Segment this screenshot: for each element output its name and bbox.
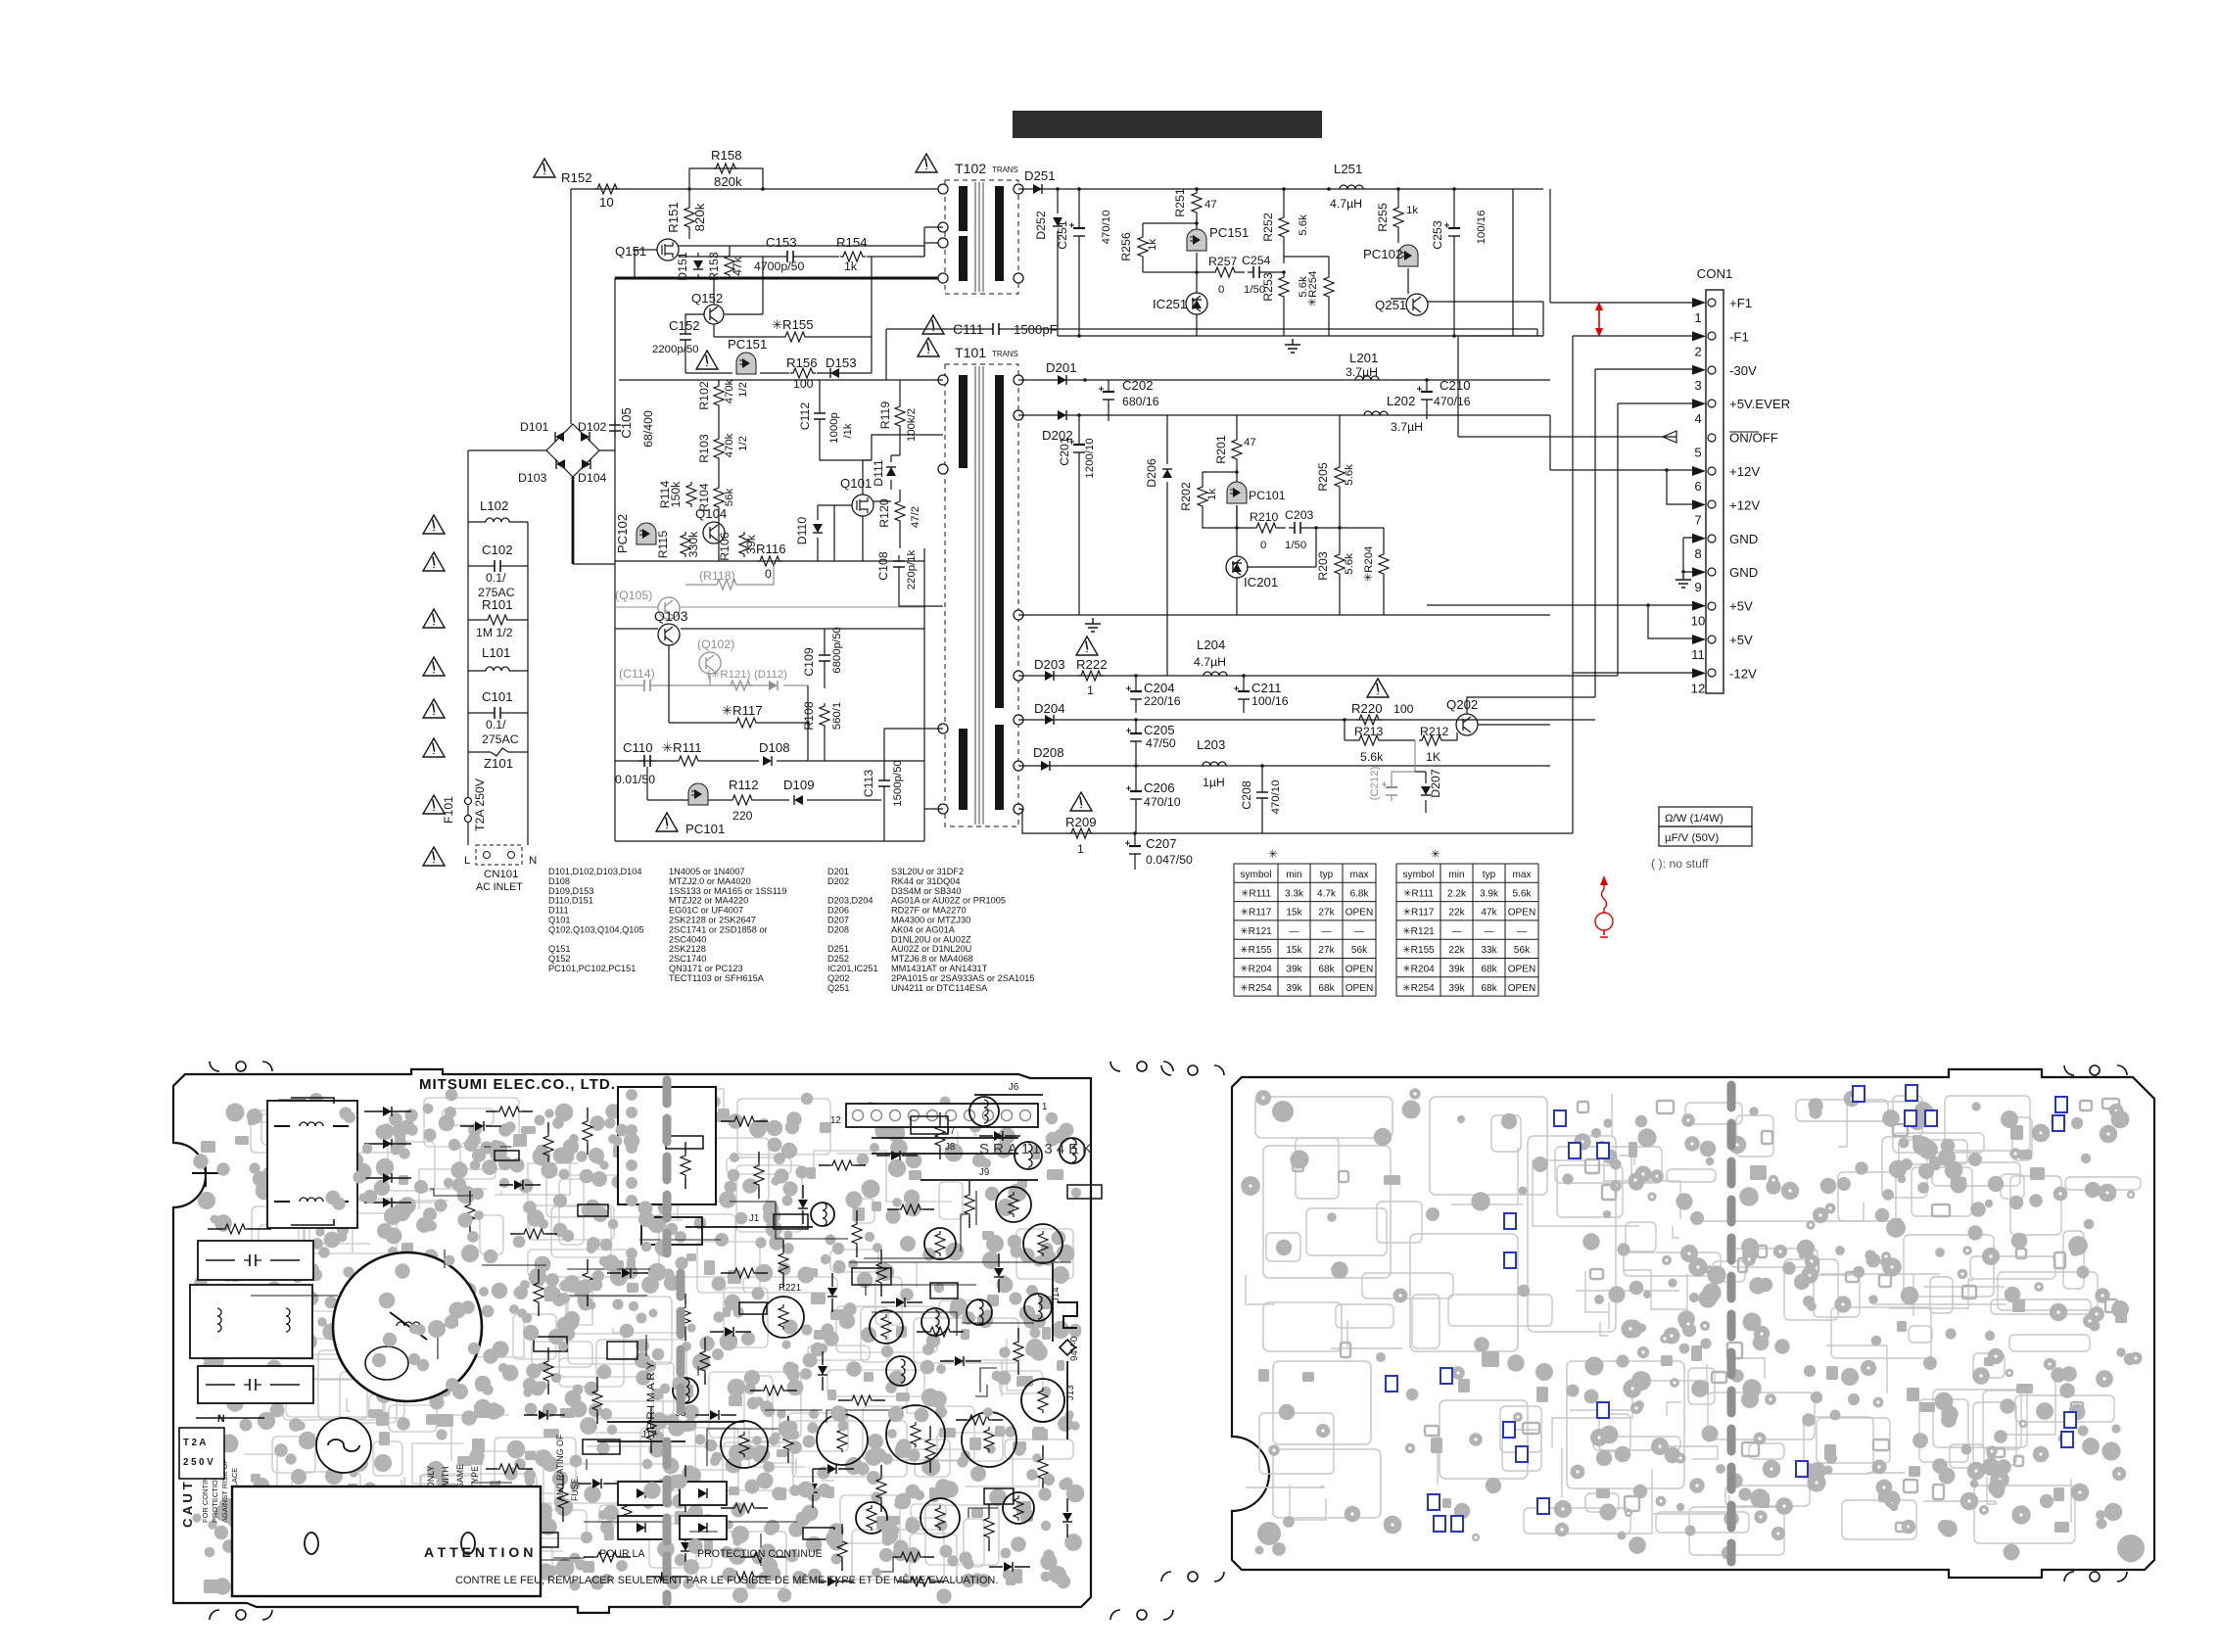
svg-text:220/16: 220/16 bbox=[1144, 694, 1181, 708]
diode D208 bbox=[1041, 761, 1050, 771]
svg-text:D153: D153 bbox=[826, 355, 857, 370]
svg-text:0.01/50: 0.01/50 bbox=[615, 773, 655, 786]
inductor L204 bbox=[1204, 672, 1227, 676]
svg-text:47: 47 bbox=[1244, 437, 1256, 448]
warning triangle bbox=[1070, 792, 1092, 811]
svg-text:C110: C110 bbox=[623, 740, 653, 755]
resistor R155* bbox=[782, 332, 808, 342]
svg-text:D3S4M or SB340: D3S4M or SB340 bbox=[891, 886, 962, 896]
svg-text:C208: C208 bbox=[1240, 780, 1253, 810]
capacitor C108 bbox=[898, 555, 900, 573]
warning triangle bbox=[918, 338, 939, 356]
PCB black links bbox=[707, 1429, 787, 1466]
resistor R151 bbox=[685, 205, 694, 230]
svg-text:MTZJ6.8 or MA4068: MTZJ6.8 or MA4068 bbox=[891, 954, 973, 964]
svg-text:12: 12 bbox=[1691, 681, 1706, 695]
svg-text:1/50: 1/50 bbox=[1285, 540, 1306, 551]
svg-text:D108: D108 bbox=[548, 876, 570, 886]
svg-text:D108: D108 bbox=[759, 740, 790, 755]
svg-text:(C212): (C212) bbox=[1369, 766, 1381, 800]
svg-text:(C114): (C114) bbox=[619, 667, 655, 681]
svg-text:C253: C253 bbox=[1431, 220, 1444, 250]
inductor L203 bbox=[1203, 762, 1226, 766]
svg-text:47/2: 47/2 bbox=[910, 506, 921, 528]
svg-text:D101,D102,D103,D104: D101,D102,D103,D104 bbox=[548, 867, 642, 876]
svg-text:47k: 47k bbox=[731, 256, 744, 276]
PCB component side board outline bbox=[173, 1069, 1091, 1613]
svg-text:R115: R115 bbox=[656, 531, 670, 559]
diode D110 bbox=[813, 524, 823, 533]
inductor L251 bbox=[1340, 185, 1363, 189]
svg-text:R222: R222 bbox=[1076, 657, 1108, 672]
svg-text:R156: R156 bbox=[786, 355, 818, 370]
svg-text:0.1/: 0.1/ bbox=[486, 571, 506, 585]
wire sec rail2 bbox=[1018, 414, 1550, 416]
resistor R158 bbox=[713, 164, 738, 173]
capacitor C153 bbox=[781, 256, 799, 258]
svg-text:2SC1741 or 2SD1858 or: 2SC1741 or 2SD1858 or bbox=[669, 924, 768, 934]
varistor Z101 bbox=[491, 748, 508, 756]
diode D153 bbox=[830, 368, 839, 378]
wire sec bottom rail bbox=[1018, 809, 1573, 833]
diode D204 bbox=[1045, 715, 1054, 725]
svg-text:R120: R120 bbox=[877, 498, 891, 528]
fuse circle bbox=[316, 1418, 371, 1473]
diode D108 bbox=[763, 756, 772, 766]
capacitor C205 bbox=[1135, 729, 1137, 747]
resistor R121 optional bbox=[728, 681, 753, 690]
svg-text:1M 1/2: 1M 1/2 bbox=[476, 626, 513, 639]
resistor R156 bbox=[790, 368, 816, 378]
svg-text:(Q105): (Q105) bbox=[615, 589, 652, 602]
resistor R252 bbox=[1279, 214, 1289, 240]
transformer T102 bbox=[945, 180, 1018, 294]
svg-text:POUR LA: POUR LA bbox=[599, 1548, 645, 1560]
svg-text:✳R204: ✳R204 bbox=[1240, 965, 1272, 975]
svg-text:R101: R101 bbox=[482, 597, 513, 612]
svg-text:C153: C153 bbox=[766, 235, 797, 250]
svg-text:L251: L251 bbox=[1334, 162, 1362, 176]
svg-text:R255: R255 bbox=[1376, 203, 1390, 232]
svg-text:2 5 0 V: 2 5 0 V bbox=[183, 1457, 213, 1468]
resistor R251 bbox=[1192, 190, 1202, 215]
svg-text:R108: R108 bbox=[802, 701, 816, 731]
svg-text:10: 10 bbox=[599, 195, 614, 210]
svg-text:J1: J1 bbox=[749, 1213, 759, 1224]
svg-text:J9: J9 bbox=[979, 1167, 989, 1178]
svg-text:✳R121: ✳R121 bbox=[1240, 926, 1272, 937]
svg-text:8: 8 bbox=[1694, 546, 1701, 561]
svg-text:F101: F101 bbox=[442, 796, 455, 824]
svg-text:+5V: +5V bbox=[1729, 599, 1753, 614]
resistor R222 bbox=[1078, 671, 1104, 681]
resistor R111* bbox=[676, 756, 701, 766]
isolation dashed line bbox=[667, 1080, 681, 1602]
svg-text:Q152: Q152 bbox=[691, 291, 723, 306]
svg-text:✳R111: ✳R111 bbox=[1403, 888, 1434, 899]
svg-text:✳R254: ✳R254 bbox=[1307, 271, 1319, 307]
svg-text:IC201,IC251: IC201,IC251 bbox=[827, 964, 878, 973]
resistor R210 bbox=[1253, 523, 1279, 533]
svg-text:R112: R112 bbox=[729, 778, 759, 792]
svg-text:D104: D104 bbox=[578, 471, 607, 485]
wire sec top rail bbox=[1018, 188, 1543, 190]
connector CON1 bbox=[1706, 290, 1723, 693]
svg-text:D207: D207 bbox=[827, 916, 849, 925]
wire vert 1 bbox=[1550, 189, 1692, 303]
svg-text:470/10: 470/10 bbox=[1270, 780, 1282, 815]
svg-text:max: max bbox=[1512, 870, 1531, 880]
capacitor C202 bbox=[1108, 387, 1109, 405]
svg-text:✳R111: ✳R111 bbox=[1241, 888, 1271, 899]
svg-text:D204: D204 bbox=[1034, 701, 1065, 716]
svg-text:+12V: +12V bbox=[1729, 497, 1760, 512]
svg-text:47: 47 bbox=[1204, 199, 1217, 211]
svg-text:220: 220 bbox=[732, 809, 753, 823]
svg-text:✳R117: ✳R117 bbox=[1241, 908, 1272, 919]
capacitor C211 bbox=[1243, 686, 1245, 705]
svg-text:✳: ✳ bbox=[1431, 849, 1440, 861]
svg-text:Q101: Q101 bbox=[840, 476, 872, 491]
svg-text:PC101,PC102,PC151: PC101,PC102,PC151 bbox=[548, 964, 636, 973]
capacitor C251 bbox=[1078, 223, 1080, 242]
wire mid tap rail bbox=[1018, 614, 1550, 616]
resistor R202 bbox=[1198, 484, 1207, 509]
svg-text:6800p/50: 6800p/50 bbox=[831, 627, 843, 674]
svg-text:39k: 39k bbox=[1448, 965, 1465, 975]
transistor Q202 bbox=[1456, 714, 1478, 735]
transistor Q104 bbox=[703, 522, 725, 543]
red source symbol bbox=[1602, 883, 1607, 913]
wire rail r116 bbox=[615, 560, 924, 562]
svg-text:D110: D110 bbox=[795, 517, 809, 545]
svg-text:Q202: Q202 bbox=[827, 973, 849, 983]
svg-text:C211: C211 bbox=[1251, 681, 1282, 695]
svg-text:T2A 250V: T2A 250V bbox=[473, 778, 487, 831]
bridge D101-D104 bbox=[546, 424, 599, 477]
wire sec rail1 bbox=[1018, 379, 1550, 381]
svg-text:L204: L204 bbox=[1197, 637, 1225, 652]
svg-text:✳R155: ✳R155 bbox=[772, 317, 814, 332]
svg-text:—: — bbox=[1354, 926, 1365, 937]
warning triangle bbox=[1076, 637, 1098, 655]
capacitor C101 bbox=[489, 712, 506, 714]
svg-text:✳R204: ✳R204 bbox=[1402, 965, 1435, 975]
wire vert 2 bbox=[1458, 302, 1543, 336]
svg-text:68k: 68k bbox=[1481, 983, 1497, 994]
svg-text:AU02Z or D1NL20U: AU02Z or D1NL20U bbox=[891, 944, 971, 954]
svg-text:RK44 or 31DQ04: RK44 or 31DQ04 bbox=[891, 876, 960, 886]
capacitor C109 bbox=[824, 649, 826, 667]
svg-text:PROTECTION CONTINUE: PROTECTION CONTINUE bbox=[697, 1548, 823, 1560]
diode D202 bbox=[1058, 410, 1066, 420]
svg-text:✳R204: ✳R204 bbox=[1363, 546, 1375, 583]
big pads bbox=[2117, 1534, 2145, 1562]
svg-text:✳R117: ✳R117 bbox=[1403, 908, 1435, 919]
ground bbox=[1285, 339, 1300, 353]
svg-text:FUSE.: FUSE. bbox=[570, 1476, 580, 1501]
capacitor C203 bbox=[1289, 527, 1306, 529]
svg-text:R256: R256 bbox=[1119, 232, 1133, 261]
svg-text:typ: typ bbox=[1320, 870, 1334, 880]
svg-text:MM1431AT or AN1431T: MM1431AT or AN1431T bbox=[891, 964, 988, 973]
svg-text:C101: C101 bbox=[482, 689, 513, 704]
svg-text:56k: 56k bbox=[1351, 945, 1368, 956]
svg-text:( ): no stuff: ( ): no stuff bbox=[1651, 857, 1709, 871]
svg-text:R103: R103 bbox=[697, 434, 711, 463]
svg-text:Q151: Q151 bbox=[615, 244, 646, 259]
PCB components silkscreen bbox=[267, 1101, 357, 1228]
title bar (redacted) bbox=[1013, 111, 1322, 138]
wire primary left rail bbox=[614, 278, 616, 841]
svg-text:OPEN: OPEN bbox=[1346, 983, 1374, 994]
svg-text:—: — bbox=[1484, 926, 1494, 937]
svg-text:R213: R213 bbox=[1354, 725, 1384, 738]
PCB pads (component side) bbox=[785, 1421, 798, 1434]
svg-text:27k: 27k bbox=[1318, 908, 1335, 919]
svg-text:R202: R202 bbox=[1179, 482, 1193, 511]
warning triangle bbox=[922, 315, 944, 334]
svg-text:WITH: WITH bbox=[441, 1467, 450, 1488]
svg-text:(✳R121): (✳R121) bbox=[707, 669, 751, 681]
svg-text:47/50: 47/50 bbox=[1146, 736, 1176, 750]
svg-text:C105: C105 bbox=[619, 407, 634, 439]
capacitor C110 bbox=[638, 760, 656, 762]
svg-text:4700p/50: 4700p/50 bbox=[754, 260, 804, 273]
wire sec rail4 bbox=[1018, 719, 1595, 721]
svg-text:D110,D151: D110,D151 bbox=[548, 896, 593, 906]
connector CN101 bbox=[476, 845, 522, 865]
svg-text:1/2: 1/2 bbox=[737, 382, 749, 398]
transistor Q101 bbox=[852, 495, 873, 516]
svg-text:Q251: Q251 bbox=[1375, 298, 1406, 312]
svg-text:C113: C113 bbox=[862, 770, 875, 798]
svg-text:D203,D204: D203,D204 bbox=[827, 896, 873, 906]
wire sec rail5 bbox=[1018, 765, 1550, 767]
wire r112 row bbox=[647, 799, 881, 801]
svg-text:OPEN: OPEN bbox=[1508, 908, 1536, 919]
svg-text:56k: 56k bbox=[724, 489, 735, 507]
resistor R104 bbox=[714, 485, 724, 510]
svg-text:6.8k: 6.8k bbox=[1349, 888, 1369, 899]
svg-text:68k: 68k bbox=[1481, 965, 1497, 975]
svg-text:AC INLET: AC INLET bbox=[476, 881, 523, 893]
svg-text:S3L20U or 31DF2: S3L20U or 31DF2 bbox=[891, 867, 964, 876]
svg-text:D207: D207 bbox=[1429, 769, 1442, 798]
wire pin3 feed bbox=[1595, 369, 1692, 697]
wire c212 d207 bbox=[1392, 740, 1415, 783]
svg-text:5.6k: 5.6k bbox=[1298, 214, 1309, 236]
svg-text:R151: R151 bbox=[666, 202, 681, 233]
wire pin8 bracket bbox=[1683, 538, 1692, 572]
PCB mount holes bbox=[236, 1062, 246, 1071]
wire ac ladder bbox=[468, 522, 528, 845]
capacitor C102 bbox=[489, 565, 506, 567]
svg-text:Q202: Q202 bbox=[1446, 697, 1478, 712]
svg-text:—: — bbox=[1451, 926, 1462, 937]
wire pin10 feed bbox=[1427, 604, 1692, 606]
svg-text:R158: R158 bbox=[711, 148, 742, 163]
svg-text:C102: C102 bbox=[482, 543, 513, 557]
svg-text:N: N bbox=[217, 1413, 225, 1425]
svg-text:R220: R220 bbox=[1351, 701, 1383, 716]
svg-text:470k: 470k bbox=[724, 379, 735, 403]
svg-text:3.9k: 3.9k bbox=[1480, 888, 1499, 899]
svg-text:-12V: -12V bbox=[1729, 666, 1757, 681]
wire primary heavy rail bbox=[615, 277, 943, 280]
svg-text:10: 10 bbox=[1691, 614, 1706, 629]
svg-text:68k: 68k bbox=[1318, 965, 1335, 975]
capacitor C212 optional bbox=[1391, 782, 1393, 801]
optocoupler PC102 bbox=[1398, 245, 1418, 266]
resistor R108 bbox=[820, 703, 829, 729]
svg-text:AND RATING OF: AND RATING OF bbox=[555, 1434, 565, 1501]
svg-text:Q103: Q103 bbox=[654, 608, 688, 624]
svg-text:470/16: 470/16 bbox=[1434, 395, 1471, 408]
optocoupler PC101 bbox=[688, 783, 708, 805]
svg-text:100/16: 100/16 bbox=[1476, 211, 1487, 245]
svg-text:D111: D111 bbox=[872, 459, 885, 487]
svg-text:R201: R201 bbox=[1214, 435, 1228, 464]
fuse F101 bbox=[465, 798, 472, 805]
resistor R106 bbox=[739, 532, 749, 557]
svg-text:820k: 820k bbox=[692, 203, 707, 231]
svg-text:2SC1740: 2SC1740 bbox=[669, 954, 706, 964]
wire q103 rows bbox=[615, 606, 924, 608]
resistor R257 bbox=[1212, 267, 1238, 277]
svg-text:1µH: 1µH bbox=[1203, 776, 1225, 789]
svg-text:39k: 39k bbox=[744, 534, 758, 554]
svg-text:D109: D109 bbox=[783, 778, 815, 792]
svg-text:✳R155: ✳R155 bbox=[1402, 945, 1435, 956]
svg-text:TECT1103 or SFH615A: TECT1103 or SFH615A bbox=[669, 973, 765, 983]
svg-text:J7: J7 bbox=[945, 1126, 955, 1137]
svg-text:680/16: 680/16 bbox=[1122, 395, 1159, 408]
svg-text:1N4005 or 1N4007: 1N4005 or 1N4007 bbox=[669, 867, 745, 876]
svg-text:CN101: CN101 bbox=[484, 869, 518, 880]
svg-text:5.6k: 5.6k bbox=[1344, 464, 1355, 486]
svg-text:L202: L202 bbox=[1387, 394, 1415, 408]
svg-text:D109,D153: D109,D153 bbox=[548, 886, 593, 896]
resistor R118 optional bbox=[714, 580, 739, 590]
svg-text:5.6k: 5.6k bbox=[1512, 888, 1532, 899]
svg-text:7: 7 bbox=[1694, 512, 1701, 527]
svg-text:2SK2128: 2SK2128 bbox=[669, 944, 706, 954]
svg-text:2200p/50: 2200p/50 bbox=[652, 344, 699, 355]
svg-text:PROTECTION: PROTECTION bbox=[211, 1475, 219, 1523]
wire pin12 feed bbox=[1573, 672, 1692, 674]
svg-text:µF/V (50V): µF/V (50V) bbox=[1665, 832, 1720, 844]
wire pin5 feed bbox=[1458, 336, 1676, 437]
svg-text:L101: L101 bbox=[482, 645, 510, 660]
capacitor C111 bbox=[987, 328, 1005, 330]
svg-text:470/10: 470/10 bbox=[1144, 795, 1181, 809]
resistor R209 bbox=[1068, 828, 1094, 838]
svg-text:IC201: IC201 bbox=[1244, 575, 1278, 590]
svg-text:100k/2: 100k/2 bbox=[906, 408, 918, 442]
svg-text:C204: C204 bbox=[1144, 681, 1175, 695]
svg-text:✳R121: ✳R121 bbox=[1402, 926, 1435, 937]
svg-text:1: 1 bbox=[1694, 310, 1701, 325]
transistor Q103 bbox=[658, 624, 680, 645]
warning triangle bbox=[916, 154, 937, 172]
diode D252 bbox=[1053, 217, 1062, 226]
svg-text:PC151: PC151 bbox=[1209, 225, 1249, 240]
wire mid rail bbox=[679, 246, 924, 257]
wire pc151 row bbox=[685, 337, 872, 373]
svg-text:J8: J8 bbox=[945, 1142, 955, 1153]
svg-text:SAME: SAME bbox=[455, 1464, 465, 1488]
svg-text:D202: D202 bbox=[827, 876, 849, 886]
resistor R212 bbox=[1419, 735, 1444, 745]
svg-text:-30V: -30V bbox=[1729, 363, 1757, 378]
svg-text:ONLY: ONLY bbox=[426, 1466, 436, 1488]
svg-text:CON1: CON1 bbox=[1697, 266, 1733, 281]
diode D201 bbox=[1058, 375, 1066, 385]
svg-text:UN4211 or DTC114ESA: UN4211 or DTC114ESA bbox=[891, 983, 988, 993]
svg-text:L: L bbox=[464, 855, 470, 867]
wire q151 gate bbox=[635, 250, 657, 278]
warning triangles left bbox=[423, 515, 445, 534]
svg-text:C251: C251 bbox=[1056, 220, 1069, 250]
wire pin6 feed bbox=[1550, 415, 1692, 470]
svg-text:4: 4 bbox=[1694, 411, 1701, 426]
mount holes right board bbox=[2090, 1065, 2100, 1075]
resistor R154 bbox=[840, 252, 866, 261]
svg-text:C202: C202 bbox=[1122, 378, 1154, 393]
svg-text:typ: typ bbox=[1483, 870, 1496, 880]
svg-text:4.7µH: 4.7µH bbox=[1194, 655, 1226, 669]
diode D251 bbox=[1033, 184, 1042, 194]
svg-text:1500p/50: 1500p/50 bbox=[892, 760, 904, 807]
wire sec gnd rail bbox=[1058, 335, 1513, 337]
svg-text:MITSUMI ELEC.CO., LTD.: MITSUMI ELEC.CO., LTD. bbox=[419, 1076, 616, 1093]
svg-text:39k: 39k bbox=[1448, 983, 1465, 994]
capacitor C112 bbox=[819, 407, 821, 425]
svg-text:PC151: PC151 bbox=[728, 337, 767, 352]
svg-text:(R118): (R118) bbox=[699, 569, 735, 583]
PCB pads overlay bbox=[470, 1160, 481, 1171]
svg-text:L201: L201 bbox=[1349, 351, 1378, 365]
svg-text:✳R254: ✳R254 bbox=[1240, 983, 1272, 994]
svg-text:R253: R253 bbox=[1261, 272, 1275, 302]
transistor IC251 bbox=[1186, 293, 1207, 314]
resistor R115 bbox=[681, 532, 690, 557]
svg-text:OPEN: OPEN bbox=[1346, 908, 1374, 919]
svg-text:OPEN: OPEN bbox=[1508, 983, 1536, 994]
T2A 250V box bbox=[179, 1428, 224, 1479]
svg-text:TRANS: TRANS bbox=[992, 350, 1018, 358]
svg-text:3.7µH: 3.7µH bbox=[1391, 420, 1423, 434]
svg-text:max: max bbox=[1349, 870, 1368, 880]
svg-text:C210: C210 bbox=[1440, 378, 1471, 393]
svg-text:Q152: Q152 bbox=[548, 954, 570, 964]
svg-text:3: 3 bbox=[1694, 378, 1701, 393]
PCB solder side board outline bbox=[1232, 1069, 2154, 1578]
resistor R101 bbox=[485, 615, 510, 625]
svg-text:1: 1 bbox=[1087, 684, 1094, 697]
resistor R201 bbox=[1232, 437, 1242, 462]
svg-text:C206: C206 bbox=[1144, 780, 1175, 795]
svg-text:symbol: symbol bbox=[1241, 870, 1272, 880]
svg-text:1k: 1k bbox=[844, 260, 858, 273]
transistor Q151 bbox=[657, 239, 679, 260]
resistor R220 bbox=[1356, 715, 1382, 725]
svg-text:GND: GND bbox=[1729, 532, 1758, 546]
svg-text:2.2k: 2.2k bbox=[1447, 888, 1467, 899]
svg-text:D201: D201 bbox=[1046, 360, 1077, 375]
resistor R253 bbox=[1279, 274, 1289, 300]
